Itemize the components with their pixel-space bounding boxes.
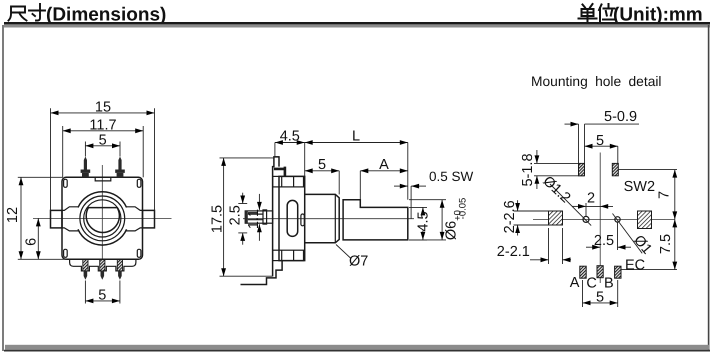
svg-text:5: 5 (99, 132, 107, 148)
centerline vertical (101, 165, 103, 259)
svg-text:17.5: 17.5 (210, 205, 226, 233)
top center notch (95, 178, 111, 181)
guide hole left (583, 216, 589, 222)
bottom rail divider 2 (293, 250, 295, 260)
dim 11.7 (63, 117, 144, 177)
label Ø7 leader (336, 245, 351, 259)
bottom pad A (580, 266, 586, 278)
corner notch BR (137, 249, 141, 257)
top rail (273, 176, 304, 187)
right ear (143, 210, 155, 228)
drawing frame (4, 25, 710, 28)
svg-text:4.5: 4.5 (415, 211, 431, 231)
plate nose top edge (274, 156, 279, 158)
svg-text:5-0.9: 5-0.9 (604, 109, 637, 125)
dim 7.5 (658, 219, 677, 269)
svg-text:Ø6: Ø6 (443, 221, 459, 240)
small slot on body edge (301, 214, 304, 226)
dim 6 (23, 218, 40, 259)
dim 15 (51, 100, 155, 211)
svg-text:2: 2 (587, 191, 595, 207)
svg-text:EC: EC (625, 258, 645, 274)
top rail divider 2 (293, 176, 295, 187)
svg-text:L: L (352, 128, 360, 144)
dim 5 bottom detail (583, 280, 618, 307)
middle pin collar (263, 210, 267, 224)
dim 2.5 pin (228, 193, 248, 245)
SW pad left (579, 163, 585, 175)
bushing (305, 194, 339, 242)
dim A (360, 157, 408, 200)
dim L (305, 128, 408, 199)
dim 1.1 pin (246, 194, 262, 241)
dim 5 bottom (85, 281, 120, 304)
svg-text:7: 7 (657, 191, 673, 199)
svg-text:A: A (379, 157, 389, 173)
svg-text:11.7: 11.7 (89, 117, 116, 133)
svg-text:Mounting hole detail: Mounting hole detail (531, 74, 662, 89)
inner ring (84, 200, 121, 237)
SW pad right (612, 163, 618, 175)
bushing end face line (334, 194, 336, 242)
right boss lines (126, 207, 143, 231)
bottom pin A (83, 260, 88, 280)
bottom pin B (117, 260, 122, 280)
svg-text:2.5: 2.5 (228, 205, 244, 225)
dim 12 (5, 177, 67, 259)
bottom rail (273, 250, 304, 260)
body (62, 177, 143, 259)
middle pin side (245, 211, 272, 223)
svg-text:-0.05: -0.05 (457, 198, 468, 220)
dim 2-2.6 (502, 200, 549, 235)
dim 0.5 SW (394, 169, 474, 219)
ext line SW row right (618, 169, 677, 171)
svg-text:5: 5 (318, 157, 326, 173)
bottom rail divider 1 (281, 250, 283, 260)
outer ring arcs (78, 192, 127, 245)
centerline horizontal (33, 217, 172, 219)
svg-text:B: B (604, 276, 614, 292)
bottom pin C (100, 260, 105, 280)
middle ring (80, 196, 125, 241)
corner notch TL (64, 179, 68, 187)
bottom bracket (70, 259, 136, 271)
top step block (274, 167, 285, 177)
centerline horizontal side view (243, 218, 414, 220)
svg-text:Ø7: Ø7 (349, 254, 368, 270)
centerline vertical detail (599, 153, 601, 284)
bottom pad B (615, 266, 621, 278)
dim 5 top (85, 132, 120, 156)
svg-text:15: 15 (95, 100, 111, 116)
svg-text:0.5 SW: 0.5 SW (429, 169, 474, 184)
svg-text:SW2: SW2 (624, 179, 655, 195)
top rail divider 1 (281, 176, 283, 187)
mounting plate (273, 157, 279, 277)
square pad right (638, 211, 652, 229)
middle pin tip (245, 211, 248, 223)
ext line bottom row right (621, 269, 677, 271)
title underline (4, 22, 710, 25)
svg-text:4.5: 4.5 (280, 128, 300, 144)
D-shaft hole (86, 208, 119, 233)
square pad left (549, 211, 563, 225)
body block (279, 176, 305, 260)
svg-text:5: 5 (596, 133, 604, 149)
dim 2.5 (586, 223, 631, 251)
oval slot (287, 200, 298, 236)
leader Ø1 (613, 214, 643, 254)
centerline horizontal detail (533, 218, 675, 220)
top pin right (115, 157, 125, 178)
svg-text:12: 12 (5, 207, 21, 223)
left boss lines (62, 207, 79, 231)
dim 5 SW (585, 133, 618, 164)
dim 2-2.1 (497, 228, 571, 264)
corner notch BL (64, 249, 68, 257)
dim 7 (657, 170, 678, 220)
middle pin inner lines (248, 214, 263, 220)
corner notch TR (137, 179, 141, 187)
svg-text:5: 5 (596, 289, 604, 305)
dim 4.5 shaft flat (409, 207, 431, 240)
svg-text:6: 6 (23, 238, 39, 246)
svg-text:5-1.8: 5-1.8 (520, 153, 536, 186)
title 尺寸 (hand-drawn CJK strokes) (9, 4, 46, 21)
dim 5-0.9 (565, 109, 640, 163)
dim 2 (572, 191, 613, 217)
leader Ø1.2 (550, 184, 591, 226)
dim Ø6 tolerance (409, 198, 468, 241)
dim 17.5 (210, 158, 274, 276)
svg-text:2-2.6: 2-2.6 (502, 200, 518, 233)
svg-text:5: 5 (98, 287, 106, 303)
svg-text:7.5: 7.5 (658, 234, 674, 254)
title 单位 (hand-drawn CJK strokes) (579, 4, 616, 22)
svg-text:2-2.1: 2-2.1 (497, 244, 530, 260)
guide hole right (615, 217, 620, 222)
dim 5-1.8 (520, 150, 584, 189)
dim 5 bushing (305, 157, 340, 194)
top pin left (81, 157, 91, 178)
bottom pad C (597, 266, 603, 278)
left ear (51, 210, 63, 228)
dim 4.5 (275, 128, 305, 176)
bottom foot (241, 261, 283, 285)
shaft (343, 200, 408, 240)
svg-text:A: A (570, 275, 580, 291)
